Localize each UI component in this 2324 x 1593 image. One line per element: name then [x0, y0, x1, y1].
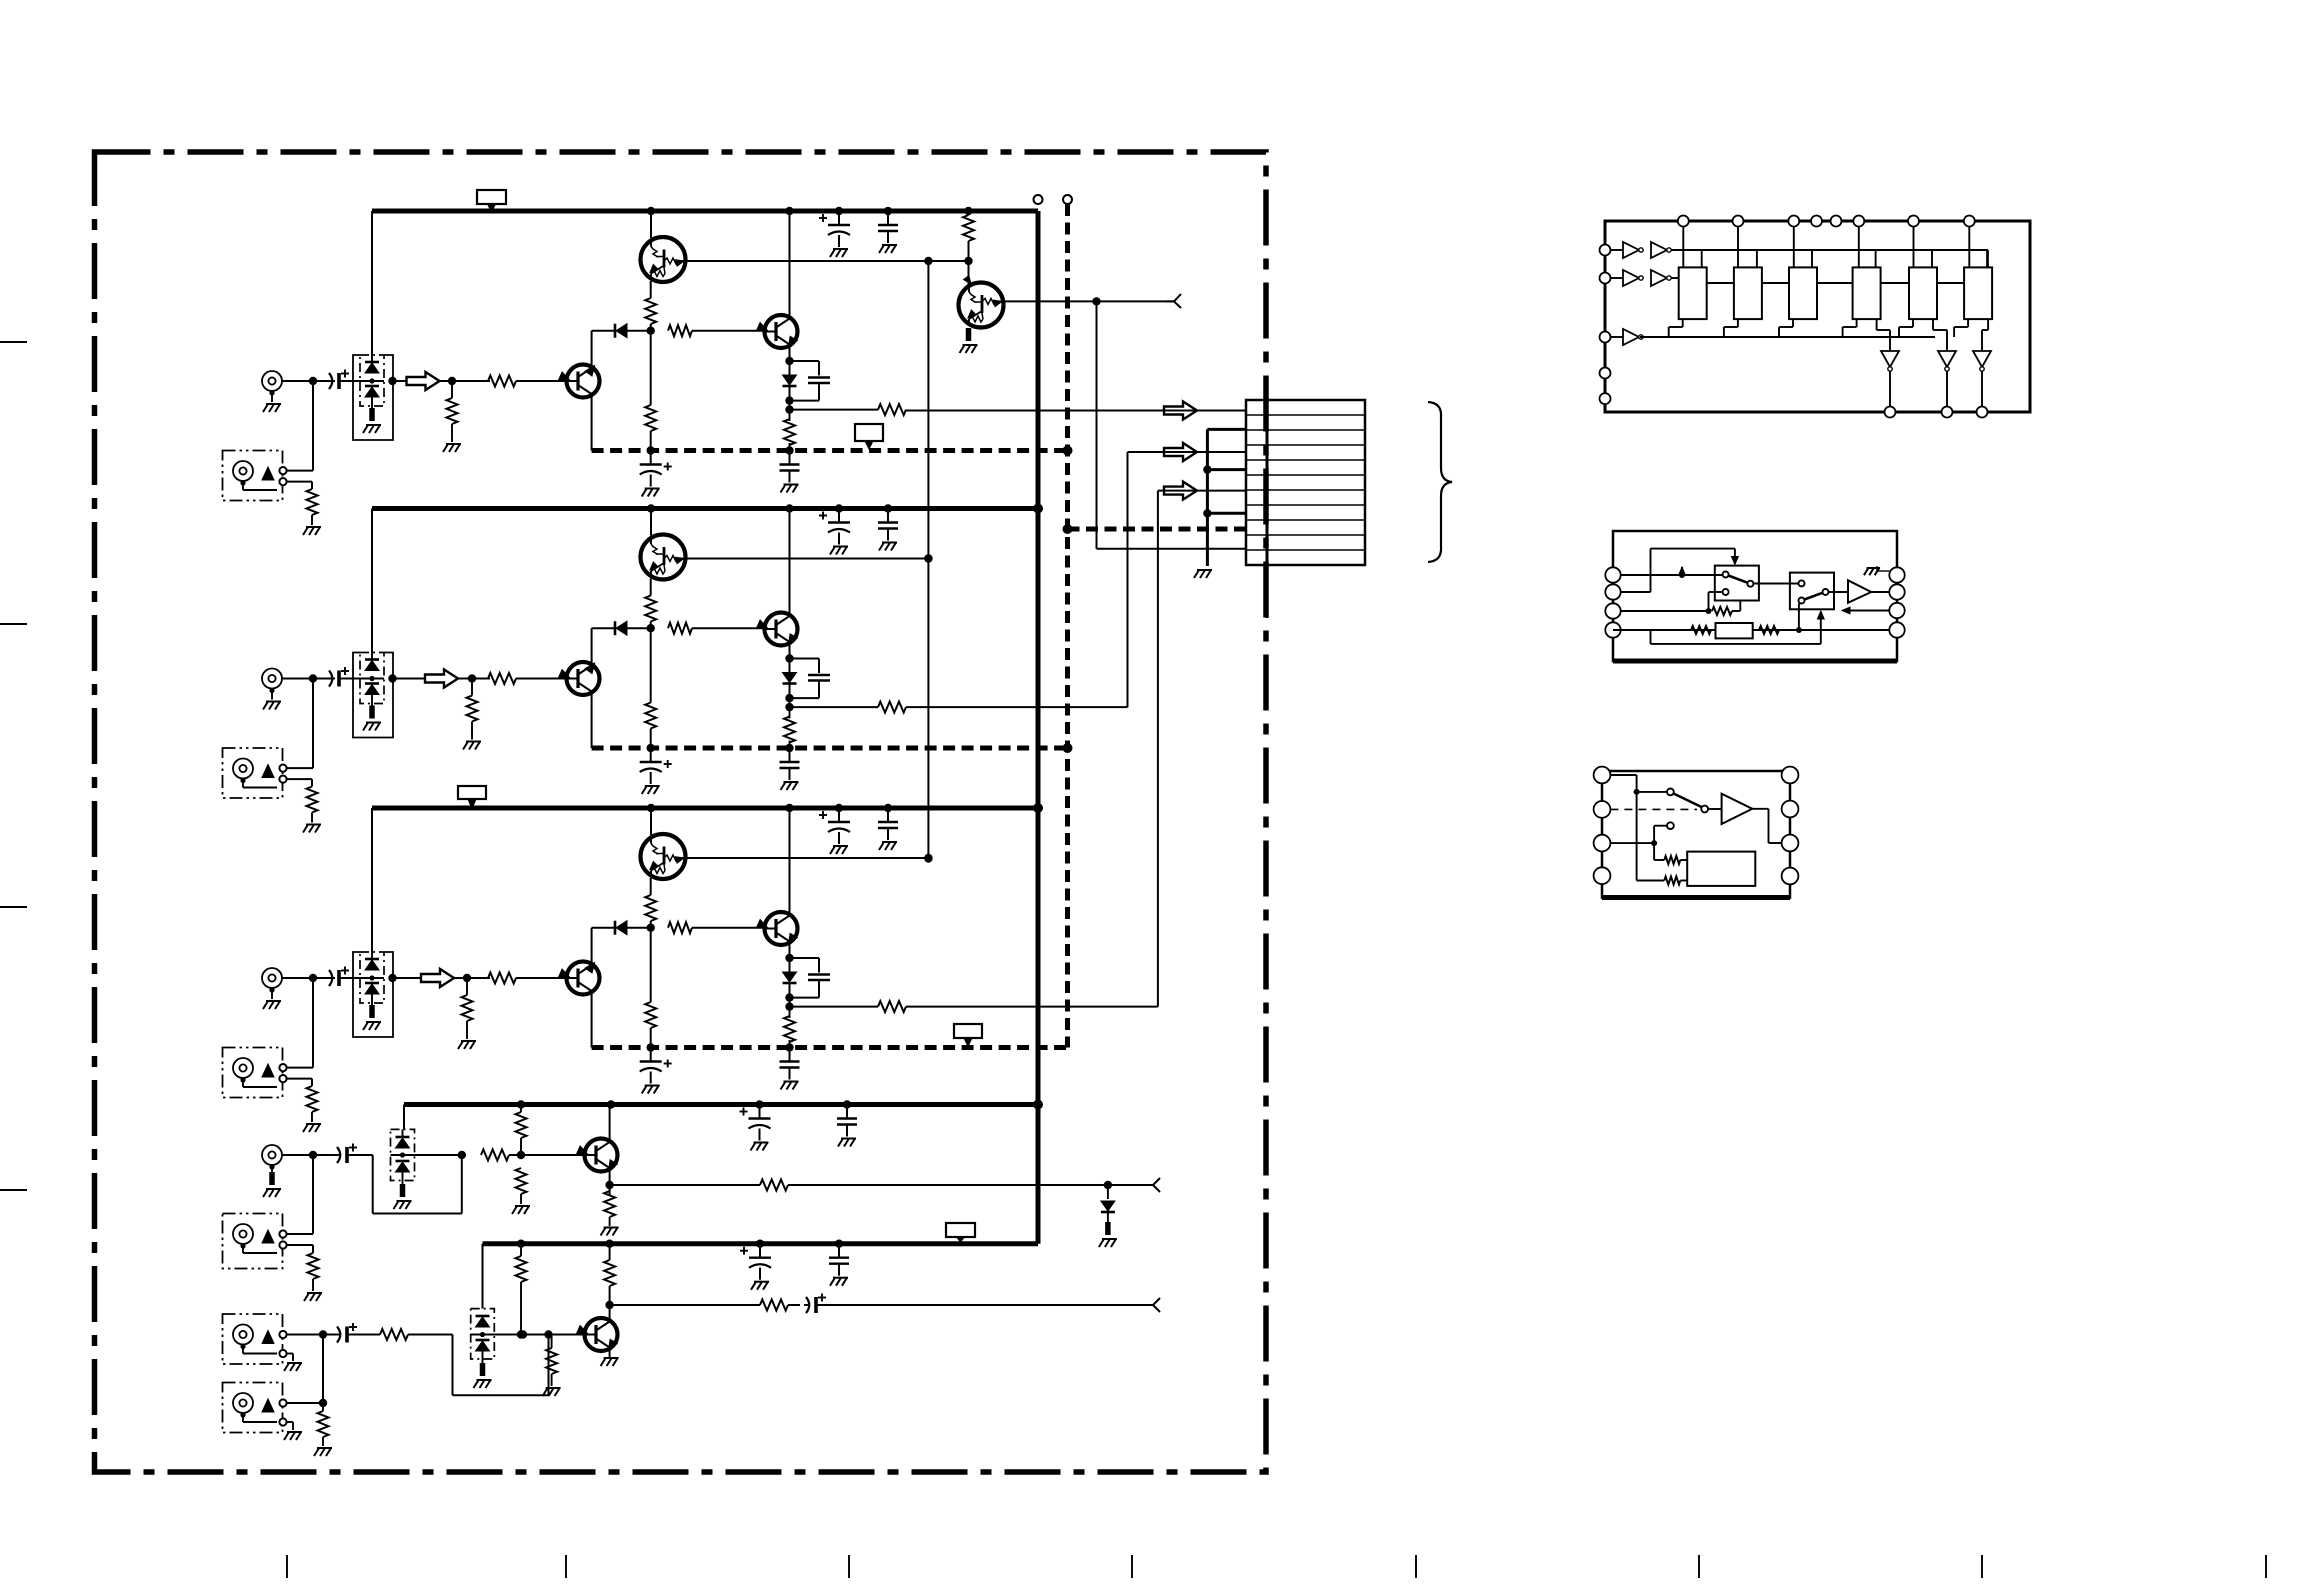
- wire capA jog: [347, 1154, 373, 1156]
- tick mark bottom 4: [1131, 1555, 1133, 1578]
- capacitor C-r1 ch1: [838, 211, 840, 225]
- IC U1 pin drop 1: [1682, 227, 1684, 268]
- wire to base row ch2: [650, 622, 652, 629]
- node dashed rail 2 ch1: [785, 446, 793, 454]
- resistor R-fb ch1: [668, 325, 692, 336]
- node rail A1: [755, 1100, 763, 1108]
- IC U1 pin drop 4: [1858, 227, 1860, 268]
- IC U1 bus row3: [1640, 336, 1935, 338]
- terminal circle +B: [1034, 195, 1043, 204]
- RCA jack J-audioB2 (boxed): [223, 1383, 283, 1433]
- diode block D-B outline: [471, 1309, 495, 1359]
- IC U3 pin right 4: [1782, 868, 1799, 885]
- IC U3 wire contact3: [1653, 826, 1655, 843]
- capacitor C-rB1: [759, 1244, 761, 1258]
- wire Q1 emitter up ch3: [591, 928, 593, 965]
- resistor R-e2 ch1: [645, 405, 656, 431]
- wire QA1 emitter: [609, 1168, 611, 1196]
- wire resistor to Q1 ch1: [516, 380, 567, 382]
- contact ch2 a: [279, 765, 286, 772]
- wire resistor to Q1 ch2: [516, 678, 567, 680]
- IC U1 wire row2: [1671, 277, 1679, 279]
- wire diode bottom lead ch1: [371, 397, 373, 408]
- IC U3 wire r1b: [1680, 859, 1687, 861]
- resistor R-Ae: [609, 1185, 611, 1192]
- connector row line 5: [1246, 474, 1365, 476]
- ground b2: [287, 1431, 302, 1433]
- node DT1 collector ch1: [924, 257, 932, 265]
- IC U1 pin drop 3: [1793, 227, 1795, 268]
- wire node to resistor ch2: [472, 678, 490, 680]
- capacitor C-g ch2: [789, 748, 791, 762]
- IC U1 out drop 3: [1981, 371, 1983, 407]
- wire contact b ch3: [287, 1078, 312, 1080]
- IC U3 outline: [1602, 771, 1790, 898]
- resistor R-fb ch3: [668, 922, 692, 933]
- IC U2 pin left 1: [1605, 567, 1620, 582]
- node audioB in: [319, 1330, 327, 1338]
- IC U1 out path 1: [1876, 319, 1878, 330]
- wire gnd pin2: [1207, 468, 1246, 471]
- transistor Q1-ch1: [567, 365, 600, 398]
- IC U1 buffer 1a: [1623, 242, 1639, 258]
- wire ch1 out to connector: [1097, 548, 1247, 550]
- IC U3 sw lever: [1674, 794, 1702, 808]
- IC U1 stage box 4: [1853, 267, 1881, 319]
- diode D-ch1b: [365, 385, 379, 388]
- IC U3 inner box: [1687, 852, 1755, 886]
- IC U2 pin right 1: [1889, 567, 1904, 582]
- IC U3 pin left 3: [1594, 835, 1611, 852]
- tick mark left 3: [0, 906, 27, 908]
- wire feed ch2: [790, 706, 879, 708]
- node dashed rail ch1: [647, 446, 655, 454]
- IC U1 inverter 3: [1973, 351, 1991, 367]
- wire blockA bottom: [402, 1172, 404, 1184]
- ground connector bus: [1197, 569, 1212, 571]
- diode D-ch1a: [365, 361, 379, 364]
- wire contact b ch1: [287, 481, 312, 483]
- IC U1 out path 3: [1987, 319, 1989, 330]
- IC U1 stage box 6: [1964, 267, 1992, 319]
- wire to base row ch3: [650, 921, 652, 928]
- IC U2 bus resistor2: [1759, 626, 1779, 634]
- diode D-Ba: [476, 1315, 490, 1318]
- ground bias ch2: [466, 741, 481, 743]
- wire +B rail ch1: [372, 209, 1038, 214]
- IC U2 sw1 lever: [1728, 576, 1747, 583]
- resistor R-det ch3: [307, 1086, 318, 1112]
- capacitor C-g ch1: [789, 451, 791, 465]
- wire feed ch2 up: [1127, 452, 1129, 707]
- diode block D-A outline: [391, 1129, 415, 1180]
- resistor R-e1 ch2: [645, 596, 656, 622]
- wire dashed rail ch3: [592, 1045, 1068, 1050]
- ground blockB: [480, 1363, 486, 1376]
- IC U2 pin right 2: [1889, 584, 1904, 599]
- IC U2 pin left 4: [1605, 622, 1620, 637]
- wire SW dashed bus vertical: [1065, 204, 1070, 1048]
- node rail junction ch3: [835, 804, 843, 812]
- IC U3 resistor1: [1664, 856, 1680, 864]
- IC U2 bus gray: [1621, 629, 1716, 631]
- IC U1 wire in3: [1611, 336, 1624, 338]
- ground chain A: [515, 1205, 530, 1207]
- wire rail to DT1 ch1: [650, 211, 652, 238]
- connector row line 8: [1246, 519, 1365, 521]
- wire Q1 collector down ch2: [591, 692, 593, 749]
- node rail junction ch3: [785, 804, 793, 812]
- resistor R-fb ch2: [668, 623, 692, 634]
- IC U1 stage box 2: [1734, 267, 1762, 319]
- contact ch2 b: [279, 776, 286, 783]
- IC U3 pin right 3: [1782, 835, 1799, 852]
- IC U1 pin bottom 3: [1977, 407, 1988, 418]
- RCA jack J2-ch1 (boxed): [223, 451, 283, 501]
- ground det ch3: [306, 1123, 321, 1125]
- IC U1 buffer 3: [1623, 329, 1639, 345]
- wire rail A2 drop: [482, 1244, 484, 1309]
- wire base row down ch2: [650, 628, 652, 702]
- IC U1 wire in2: [1611, 277, 1624, 279]
- wire jack to node ch2: [282, 678, 335, 680]
- IC U1 pin left 4: [1600, 368, 1611, 379]
- wire gnd pin3: [1207, 512, 1246, 515]
- IC U1 pin top 6: [1853, 216, 1864, 227]
- diode block D-ch3 outline: [360, 952, 384, 1003]
- arrow symbol ch1: [407, 372, 440, 390]
- IC U1 pin top 5: [1831, 216, 1842, 227]
- tick mark bottom 7: [1981, 1555, 1983, 1578]
- diode D-Ab: [396, 1160, 410, 1163]
- wire to Q2 base ch2: [692, 627, 765, 629]
- wire diode to node ch1: [627, 330, 651, 332]
- capacitor C-pk ch3: [790, 957, 820, 959]
- brace: [1428, 402, 1452, 562]
- IC U2 wire fb: [1732, 610, 1740, 612]
- IC U1 chain 2: [1762, 282, 1789, 284]
- resistor R-c ch1: [968, 211, 970, 215]
- IC U1 inverter 1: [1881, 351, 1899, 367]
- wire capB to res: [347, 1334, 380, 1336]
- ground bus at connector: [1206, 429, 1209, 566]
- ground R-Bgnd: [546, 1387, 561, 1389]
- contact ch1 b: [279, 478, 286, 485]
- resistor R-det ch2: [307, 787, 318, 813]
- wire Q1 collector down ch3: [591, 991, 593, 1048]
- transistor Q1-ch2: [567, 662, 600, 695]
- wire diode to node ch3: [789, 983, 791, 1007]
- node audioA clamp: [1104, 1181, 1112, 1189]
- wire +B rail ch3: [372, 806, 1038, 811]
- IC U2 resistor fb: [1712, 607, 1732, 615]
- wire diode center ch3: [360, 977, 384, 979]
- IC U1 out drop 2: [1946, 371, 1948, 407]
- IC U1 bus row1: [1671, 249, 1988, 251]
- wire node to resistor ch1: [452, 380, 490, 382]
- node ch2 clamp: [924, 554, 932, 562]
- IC U3 node pin3: [1651, 840, 1657, 846]
- wire rail A1 drop: [403, 1105, 405, 1130]
- arrow row1: [1164, 402, 1197, 420]
- wire blockB center: [471, 1334, 560, 1336]
- wire QB collector chain: [609, 1244, 611, 1260]
- capacitor C-in ch1: [327, 380, 331, 382]
- wire rail to Q2 ch3: [789, 808, 791, 916]
- IC U1 pin top 4: [1811, 216, 1822, 227]
- IC U1 out path 2: [1932, 319, 1934, 330]
- resistor R-Aout: [760, 1180, 788, 1191]
- wire diode center ch2: [360, 678, 384, 680]
- wire DT1 emitter ch3: [650, 878, 652, 895]
- resistor R-base ch1: [488, 376, 516, 387]
- wire to Q2 base ch3: [692, 927, 765, 929]
- capacitor C-in ch3: [327, 977, 331, 979]
- wire rail to Q2 ch2: [789, 509, 791, 617]
- node rail A2: [756, 1240, 764, 1248]
- diode D-Aclamp: [1107, 1185, 1109, 1199]
- node rail junction ch1: [835, 207, 843, 215]
- node chain B: [517, 1330, 525, 1338]
- node +B ch2 rail: [1033, 504, 1043, 514]
- IC U1 row3 tap 1: [1668, 327, 1670, 337]
- IC U2 sw2 contact out: [1823, 589, 1829, 595]
- node rail A1: [607, 1100, 615, 1108]
- IC U2 wire amp in: [1829, 591, 1849, 593]
- node DT1 collector ch2: [924, 554, 932, 562]
- node DT1 collector ch3: [924, 854, 932, 862]
- wire node to resistor ch3: [467, 977, 490, 979]
- node SW ch2: [1063, 743, 1073, 753]
- wire audioB in: [287, 1334, 335, 1336]
- IC U2 pin left 3: [1605, 603, 1620, 618]
- wire feed row1 ch1: [906, 410, 1246, 412]
- node dashed rail 2 ch3: [785, 1043, 793, 1051]
- transistor DT1-ch1: [641, 237, 686, 282]
- wire feed ch3: [790, 1006, 879, 1008]
- diode D-Bb: [476, 1339, 490, 1342]
- wire diode center ch1: [360, 380, 384, 382]
- IC U2 wire pin4 route: [1613, 629, 1651, 631]
- IC U1 row1 drop 1: [1701, 250, 1703, 267]
- IC U2 pin right 3: [1889, 603, 1904, 618]
- diode D-ch2a: [365, 658, 379, 661]
- contact audioB2 b: [279, 1418, 286, 1425]
- IC U2 node pin3: [1706, 608, 1712, 614]
- transistor Q2-ch2: [765, 613, 798, 646]
- ground b1: [287, 1362, 302, 1364]
- capacitor C-in ch2: [327, 678, 331, 680]
- wire b2 contact b: [287, 1421, 293, 1423]
- IC U1 chain 3: [1817, 282, 1853, 284]
- label box ch1 dashed rail: [855, 424, 883, 441]
- node dashed rail ch3: [647, 1043, 655, 1051]
- IC U1 row1 end drop: [1987, 250, 1989, 267]
- connector row line 2: [1246, 429, 1365, 431]
- node gnd pin3: [1203, 509, 1211, 517]
- wire blockB bottom: [482, 1351, 484, 1363]
- diode D-fb ch1: [614, 324, 617, 338]
- connector row line 6: [1246, 489, 1365, 491]
- IC U1 pin left 2: [1600, 273, 1611, 284]
- terminal audioA out: [1153, 1178, 1160, 1185]
- connector mating line: [1266, 385, 1269, 618]
- IC U1 pin top 8: [1964, 216, 1975, 227]
- wire Q1 collector down ch1: [591, 394, 593, 451]
- terminal audioB out: [1153, 1298, 1160, 1305]
- IC U3 sw contact2: [1701, 806, 1708, 813]
- connector block CN1: [1246, 400, 1365, 565]
- wire node link ch1: [928, 260, 968, 262]
- IC U2 switch1 box: [1715, 566, 1759, 601]
- node rail junction ch1: [964, 207, 972, 215]
- resistor R-e1 ch3: [645, 895, 656, 921]
- IC U1 pin left 1: [1600, 245, 1611, 256]
- wire audioA out2: [788, 1184, 1153, 1186]
- transistor Q1-ch3: [567, 962, 600, 995]
- node after arrow ch1: [448, 377, 456, 385]
- board outline border: [95, 152, 1267, 1472]
- IC U1 chain 1: [1707, 282, 1734, 284]
- signal arrow ch1: [393, 380, 407, 382]
- IC U3 dashed pin2: [1610, 808, 1697, 810]
- wire audio rail A2: [483, 1241, 1039, 1246]
- IC U2 pin right 4: [1889, 622, 1904, 637]
- ground bias ch3: [461, 1040, 476, 1042]
- IC U2 wire pin2 route: [1621, 591, 1651, 593]
- wire SW dashed to connector: [1068, 527, 1247, 532]
- resistor chain A x521: [520, 1105, 522, 1113]
- resistor R-bias ch3: [466, 978, 468, 995]
- IC U3 resistor2: [1637, 880, 1665, 882]
- node rail junction ch2: [785, 504, 793, 512]
- tick mark bottom 6: [1698, 1555, 1700, 1578]
- IC U2 sw1 contact com: [1723, 572, 1729, 578]
- node base row ch2: [647, 624, 655, 632]
- wire jack to node ch3: [282, 977, 335, 979]
- node dashed rail ch2: [647, 744, 655, 752]
- resistor chain B x521: [520, 1244, 522, 1256]
- IC U1 row1 drop 4: [1875, 250, 1877, 267]
- RCA jack J-audioB1 (boxed): [223, 1314, 283, 1364]
- node audioB mid2: [544, 1330, 552, 1338]
- IC U2 sw1 contact b: [1723, 589, 1729, 595]
- IC U1 row3 tap 4: [1842, 327, 1844, 337]
- node rail junction ch3: [647, 804, 655, 812]
- contact ch1 a: [279, 467, 286, 474]
- IC U3 pin right 2: [1782, 801, 1799, 818]
- node base row ch1: [647, 327, 655, 335]
- node diode out ch2: [388, 674, 396, 682]
- wire jackA to node: [282, 1154, 335, 1156]
- ground ch1 jack: [266, 403, 281, 405]
- IC U1 buffer 2a: [1623, 270, 1639, 286]
- IC U1 row3 tap 2: [1723, 327, 1725, 337]
- IC U1 row1 drop 5: [1931, 250, 1933, 267]
- node SW row: [1063, 524, 1073, 534]
- wire Q2 emitter ch3: [789, 942, 791, 975]
- IC U2 bus resistor1: [1691, 626, 1711, 634]
- node Q2 emitter ch3: [785, 954, 793, 962]
- label box ch1 rail: [477, 190, 506, 204]
- wire corner to diode ch3: [592, 927, 615, 929]
- ground bias ch1: [446, 443, 461, 445]
- ground detB: [317, 1447, 332, 1449]
- connector row line 3: [1246, 444, 1365, 446]
- contact audioB1 a: [279, 1331, 286, 1338]
- IC U2 amp: [1848, 580, 1871, 603]
- resistor R-det ch1: [307, 489, 318, 515]
- node rail junction ch3: [884, 804, 892, 812]
- RCA jack J-ch2: [262, 669, 282, 689]
- RCA jack J2-ch2 (boxed): [223, 748, 283, 798]
- wire audioA out: [610, 1184, 760, 1186]
- node audioA base: [517, 1151, 525, 1159]
- wire rail to DT1 ch2: [650, 509, 652, 536]
- wire audioB drop: [322, 1336, 324, 1403]
- wire +B bus vertical: [1036, 211, 1041, 1244]
- IC U1 outline: [1605, 221, 2030, 412]
- resistor R-detB: [322, 1403, 324, 1411]
- diode D-Aa: [396, 1136, 410, 1139]
- node +B ch3 rail: [1033, 803, 1043, 813]
- node +B audio rail1: [1033, 1100, 1043, 1110]
- wire jackA stub: [271, 1165, 273, 1172]
- IC U1 row3 tap 5: [1898, 327, 1900, 337]
- wire arrow to node ch1: [440, 380, 453, 382]
- resistor R-bias ch1: [451, 381, 453, 398]
- capacitor C-pk ch1: [790, 360, 820, 362]
- wire input drop ch2: [312, 679, 314, 769]
- IC U2 node pin1: [1679, 572, 1685, 578]
- capacitor C-r1 ch2: [838, 509, 840, 523]
- node QB collector: [605, 1301, 613, 1309]
- node feed ch1: [785, 405, 793, 413]
- node cap bottom ch3: [785, 993, 793, 1001]
- resistor R-bias ch2: [471, 679, 473, 696]
- wire to Q2 base ch1: [692, 330, 765, 332]
- node Q2 emitter ch1: [785, 357, 793, 365]
- IC U3 wire to sw: [1637, 791, 1667, 793]
- resistor R-out ch1: [878, 404, 906, 415]
- wire QB emitter: [609, 1348, 611, 1359]
- ground blockA: [400, 1184, 406, 1197]
- IC U2 sw2 lever: [1804, 593, 1822, 600]
- wire rail drop to diode block ch3: [371, 808, 373, 952]
- wire input drop ch1: [312, 381, 314, 471]
- node input ch2: [309, 674, 317, 682]
- capacitor C-inB: [335, 1334, 339, 1336]
- IC U2 sw2 contact b: [1799, 598, 1805, 604]
- IC U1 buffer 2b: [1651, 270, 1667, 286]
- wire ch1 out drop: [1096, 301, 1098, 548]
- RCA jack J2-ch3 (boxed): [223, 1048, 283, 1098]
- IC U1 inverter 2: [1938, 351, 1956, 367]
- node cap bottom ch1: [785, 396, 793, 404]
- capacitor C-e ch3: [650, 1048, 652, 1062]
- node rail A2: [605, 1240, 613, 1248]
- IC U2 gnd: [1867, 567, 1881, 569]
- resistor R-B1: [380, 1329, 408, 1340]
- wire Q2 emitter ch2: [789, 642, 791, 675]
- node DT2 out ch1: [1092, 297, 1100, 305]
- tick mark bottom 5: [1415, 1555, 1417, 1578]
- transistor Q2-ch1: [765, 315, 798, 348]
- node rail junction ch1: [647, 207, 655, 215]
- node base row ch3: [647, 924, 655, 932]
- IC U3 sw contact1: [1667, 789, 1674, 796]
- box around diode block ch1: [353, 355, 393, 440]
